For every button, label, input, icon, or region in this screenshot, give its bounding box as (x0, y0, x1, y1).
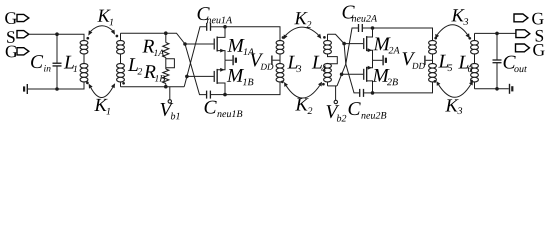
label K1 bottom (94, 99, 110, 115)
label Vb2 (327, 105, 347, 121)
node M2B drain (371, 91, 375, 95)
label K3 top (451, 9, 468, 25)
transistor M1A (214, 27, 225, 60)
polarity dot L4 top (323, 36, 326, 39)
node M1A drain (223, 25, 227, 29)
coupling arrow K2 top (284, 27, 322, 39)
wire drain2 rail top to L5 (373, 28, 433, 41)
terminal Vb1 (168, 87, 171, 103)
capacitor Cneu1A (206, 23, 225, 31)
label R1A (142, 40, 164, 56)
wire L2 bottom rail (121, 86, 185, 88)
coupling arrow K2 bottom (284, 82, 322, 98)
label L5 (438, 55, 452, 71)
wire drain2 rail bottom to L5 (373, 82, 433, 93)
capacitor Cin (53, 34, 62, 89)
wire drain rail bottom to L3 (225, 82, 280, 95)
wire S pad to L1 top (29, 34, 84, 40)
inductor L1 (80, 41, 88, 82)
label K2 top (294, 12, 311, 28)
node Cout bottom (495, 87, 499, 91)
polarity dot L1 top (86, 37, 89, 40)
label Cneu1B (205, 101, 243, 118)
capacitor Cout (493, 33, 502, 88)
inductor L4 (324, 34, 345, 86)
capacitor Cneu1B (206, 91, 225, 99)
label L1 (64, 56, 77, 72)
transistor M1B (214, 60, 225, 94)
label Cneu1A (198, 7, 232, 23)
wire drain rail top to L3 (225, 27, 280, 41)
polarity dot L2 top (116, 35, 119, 38)
supply terminal VDD2 (424, 56, 432, 65)
label M1B (227, 69, 254, 85)
node A2 gate M2A (342, 42, 363, 46)
label K1 top (97, 10, 113, 26)
label R1B (144, 65, 165, 81)
polarity dot L3 top (282, 36, 285, 39)
node M2A drain (371, 26, 375, 30)
label K2 bottom (295, 98, 312, 114)
wire L6 top to S pad (475, 32, 516, 34)
inductor L2 (117, 33, 125, 86)
pad G1 (input top ground pad) (5, 12, 29, 24)
polarity dot L1 bottom (86, 82, 89, 85)
wire cross D1 (node A to Cneu1B) (185, 44, 206, 95)
wire cross D2 (bottom node to Cneu1A) (184, 27, 206, 87)
label K3 bottom (445, 99, 462, 114)
resistor R1A (163, 33, 169, 57)
polarity dot L3 bottom (281, 81, 284, 84)
wire L2 top to R1 chain and node A (121, 33, 186, 44)
label L4 (312, 56, 326, 72)
coupling arrow K1 bottom (89, 83, 116, 97)
label Cneu2B (349, 102, 387, 119)
node R1B bottom (164, 85, 168, 89)
polarity dot L5 bottom (434, 80, 437, 83)
pad G2 (input bottom ground pad) (6, 46, 29, 58)
node S/Cin junction (55, 32, 59, 36)
capacitor Cneu2B (359, 89, 372, 97)
terminal Vb2 (334, 86, 337, 104)
capacitor Cneu2A (358, 24, 373, 32)
polarity dot L6 bottom (470, 80, 473, 83)
node Cin bottom junction (55, 87, 59, 91)
wire L4 bottom rail (328, 85, 338, 87)
polarity dot L4 bottom (322, 83, 325, 86)
wire cross D2 stage2 (bottom node to Cneu2A) (337, 28, 358, 86)
inductor L3 (276, 41, 284, 82)
node B2 gate M2B (340, 73, 363, 77)
label M1A (227, 39, 254, 55)
label Vb1 (161, 103, 180, 119)
node R1A top (164, 31, 168, 35)
node A gate M1A (183, 42, 213, 46)
label VDD stage1 (251, 54, 274, 70)
node M1B drain (223, 93, 227, 97)
label L6 (458, 56, 472, 72)
wire ground rail to L1 bottom (28, 82, 84, 89)
polarity dot L5 top (434, 37, 437, 40)
resistor R1B (163, 58, 175, 87)
label Cneu2A (343, 5, 377, 21)
label Cout (504, 56, 527, 73)
label L3 (287, 56, 301, 72)
label VDD stage2 (403, 52, 425, 68)
node B gate M1B (185, 75, 214, 79)
supply terminal VDD1 (271, 56, 280, 65)
ground (M1 sources) (225, 55, 237, 65)
ground (M2 sources) (373, 55, 388, 65)
coupling arrow K1 top (88, 26, 115, 36)
polarity dot L2 bottom (122, 82, 125, 85)
coupling arrow K3 bottom (437, 81, 473, 98)
node Cout top (495, 32, 499, 36)
pad S out (output signal pad) (516, 30, 543, 42)
label M2A (373, 38, 399, 54)
label L2 (128, 58, 142, 74)
ground (output side) (509, 84, 514, 94)
coupling arrow K3 top (435, 25, 470, 39)
transistor M2B (363, 60, 372, 93)
label M2B (372, 69, 398, 85)
ground (input side) (23, 84, 57, 94)
transistor M2A (363, 28, 372, 60)
pad G3 (output top ground pad) (514, 13, 544, 25)
label Cin (31, 55, 50, 71)
inductor L5 (429, 41, 437, 82)
pad S in (input signal pad) (7, 31, 29, 43)
pad G4 (output bottom ground pad) (516, 44, 545, 56)
wire L6 bottom rail (475, 88, 509, 90)
inductor L6 (471, 33, 479, 88)
wire cross D1 stage2 (node A2 to Cneu2B) (344, 44, 360, 93)
polarity dot L6 top (468, 37, 471, 40)
